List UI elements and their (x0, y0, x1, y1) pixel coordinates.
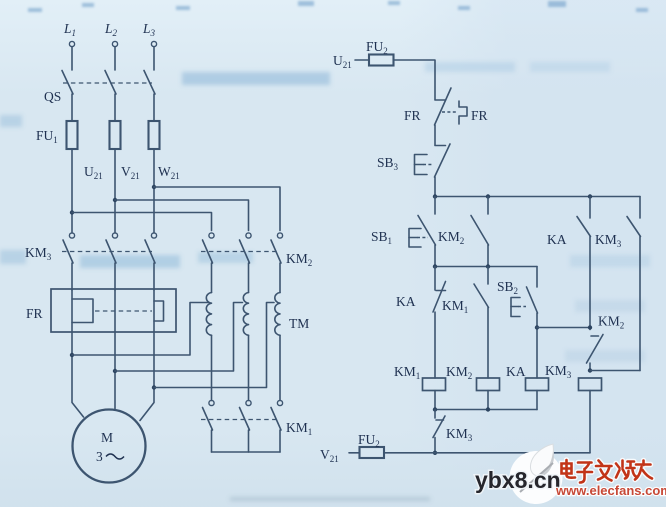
fuse FU1 element 1 (67, 121, 78, 149)
KM1 pole1 terminal (209, 400, 214, 405)
control bottom bus (384, 452, 590, 454)
wire FU1 to KM3 pole2 (node V21) (114, 149, 116, 233)
junction bus-KM2aux (486, 194, 490, 198)
node W21 label (158, 164, 180, 181)
wire KM3 pole2 to FR (114, 263, 116, 290)
control top bus (435, 196, 640, 198)
wire L1 to QS (71, 47, 73, 70)
pushbutton SB2 (NO) (511, 267, 538, 379)
KM2 aux label (438, 229, 464, 246)
svg-text:3: 3 (96, 449, 103, 464)
junction KM3 coil top (588, 368, 592, 372)
wire V21 phase to KM2 pole2 (115, 200, 249, 231)
autotransformer TM label (289, 316, 309, 331)
KM2 pole1 terminal (209, 233, 214, 238)
junction SB2 bottom (535, 325, 539, 329)
node L1 label (63, 21, 76, 38)
motor M (73, 410, 146, 483)
FR contact label (left) (404, 108, 421, 123)
coil KM1 label (394, 364, 420, 381)
contactor KM2 aux NO contact (471, 197, 489, 267)
KM3 pole1 blade (63, 240, 73, 263)
KM1 pole2 blade (240, 408, 250, 431)
KM2 pole2 terminal (246, 233, 251, 238)
contactor KM3 NC interlock (bottom) (433, 410, 445, 453)
KA row2 label (396, 294, 416, 309)
wire L3 to QS (153, 47, 155, 70)
SB1 label (371, 229, 392, 246)
wire U21 to FU2 (355, 59, 369, 61)
contactor KM3 aux NO contact (row1) (627, 197, 641, 371)
wire KM2 pole1 to TM coil1 (211, 263, 213, 293)
fuse FU2 (top) (369, 55, 394, 66)
wire KM3 coil to bottom bus (589, 391, 591, 453)
svg-text:www.elecfans.com: www.elecfans.com (555, 483, 666, 498)
switch QS pole 1 (62, 71, 73, 95)
star point bus (212, 451, 281, 453)
junction return-col2 (486, 407, 490, 411)
KM1 pole2 terminal (246, 400, 251, 405)
wire FR pole1 down to motor (72, 332, 84, 417)
wire KA coil to return bar (536, 391, 538, 410)
wire TM tap3 to phase3 (154, 303, 274, 388)
contactor KM2 NC interlock contact (587, 335, 604, 371)
KA row1 label (547, 232, 567, 247)
junction phase3 tap (152, 385, 156, 389)
coil KM2 label (446, 364, 472, 381)
wire TM coil1 to KM1 (211, 335, 213, 400)
node U21 label (84, 164, 103, 181)
wire L2 to QS (114, 47, 116, 70)
KM3 NC label (446, 426, 473, 443)
wire KM3 pole1 to FR (71, 263, 73, 290)
svg-text:FR: FR (26, 306, 43, 321)
node U21 (control) label (333, 53, 352, 70)
thermal relay FR label (26, 306, 43, 321)
KM2 pole2 blade (240, 240, 250, 263)
relay KA NC contact (row2) (433, 267, 446, 379)
wire FU1 to KM3 pole1 (node U21) (71, 149, 73, 233)
terminal L1 (69, 41, 74, 46)
watermark chinese logo text (drawn strokes) (562, 460, 653, 483)
wire U21 phase to KM2 pole1 (72, 213, 212, 231)
terminal L2 (112, 41, 117, 46)
wire QS to FU1 pole1 (71, 94, 73, 121)
row1 junction bar (435, 266, 537, 268)
wire FU2 to FR contact (394, 60, 436, 100)
fuse FU2 (top) label (366, 39, 388, 56)
terminal L3 (151, 41, 156, 46)
pushbutton SB1 (NO start) (409, 197, 436, 267)
coil return bar (435, 409, 537, 411)
node V21 label (121, 164, 140, 181)
node V21 (control) label (320, 447, 339, 464)
SB2 label (497, 279, 518, 296)
contactor KM1 aux NO contact (row2) (474, 267, 489, 379)
KM3 pole2 terminal (112, 233, 117, 238)
KM3 pole3 blade (145, 240, 155, 263)
thermal relay FR heater block (51, 289, 176, 332)
KM3 pole2 blade (106, 240, 116, 263)
KM2 pole3 terminal (277, 233, 282, 238)
autotransformer TM coil 1 (206, 293, 211, 336)
FR heater label (right) (471, 108, 488, 123)
coil KM3 (579, 378, 602, 391)
wire KM2 pole2 to TM coil2 (248, 263, 250, 293)
wire TM tap1 to phase1 (72, 303, 208, 356)
node L3 label (142, 21, 156, 38)
coil KA (526, 378, 549, 391)
KM1 pole3 terminal (277, 400, 282, 405)
junction bottom bus (433, 451, 437, 455)
svg-text:QS: QS (44, 89, 61, 104)
wire TM coil2 to KM1 (248, 335, 250, 400)
wire KM1 coil to return bar (434, 391, 436, 410)
coil KA label (506, 364, 526, 379)
junction KM2nc top (588, 325, 592, 329)
fuse FU1 label (36, 128, 58, 145)
wire KM3aux to KM3 coil node (590, 370, 640, 372)
KM1 linkage (dashed) (201, 419, 278, 421)
KM1 pole3 blade (271, 408, 281, 431)
svg-text:ybx8.cn: ybx8.cn (475, 467, 561, 493)
watermark elecfans url (555, 483, 666, 498)
KM3 pole3 terminal (151, 233, 156, 238)
SB3 label (377, 155, 399, 172)
KM1 pole1 blade (203, 408, 213, 431)
junction row1-col1 (433, 264, 437, 268)
wire SB3 to bus (434, 177, 436, 197)
wire FR pole2 down to motor (114, 332, 116, 410)
KM2 label (right bank) (286, 251, 312, 268)
wire TM tap2 to phase2 (115, 303, 243, 372)
switch QS label (44, 89, 61, 104)
autotransformer TM coil 2 (243, 293, 248, 336)
pushbutton SB3 (NC stop) (415, 144, 451, 177)
junction on U21 phase (70, 210, 74, 214)
watermark ybx8.cn text (475, 467, 561, 493)
switch QS pole 2 (105, 71, 116, 95)
wire FR pole3 down to motor (140, 332, 154, 421)
fuse FU2 (bottom) (360, 447, 385, 458)
KM2 NC label (598, 314, 624, 331)
watermark feather badge (510, 444, 563, 504)
wire W21 phase to KM2 pole3 (154, 187, 280, 231)
KM2 pole3 blade (271, 240, 281, 263)
wire QS to FU1 pole2 (114, 94, 116, 121)
coil KM3 label (545, 363, 572, 380)
wire KM2 pole3 to TM coil3 (279, 263, 281, 293)
junction on V21 phase (113, 198, 117, 202)
thermal relay FR NC contact (435, 88, 468, 125)
wire KM1 poles to star bus (212, 430, 281, 452)
switch QS linkage (dashed) (63, 82, 152, 84)
coil KM2 (477, 378, 500, 391)
wire FU1 to KM3 pole3 (node W21) (153, 149, 155, 233)
wire KM3 pole3 to FR (153, 263, 155, 290)
wire FR to SB3 (434, 125, 436, 145)
KM1 aux label (442, 298, 468, 315)
svg-text:M: M (101, 430, 113, 445)
switch QS pole 3 (144, 71, 155, 95)
node L2 label (104, 21, 118, 38)
svg-text:FR: FR (404, 108, 421, 123)
KM3 aux label (595, 232, 622, 249)
junction bus-SB1 (433, 194, 437, 198)
fuse FU2 (bottom) label (358, 432, 380, 449)
wire V21 to FU2 bottom (349, 452, 360, 454)
svg-text:TM: TM (289, 316, 309, 331)
junction on W21 phase (152, 185, 156, 189)
svg-text:FR: FR (471, 108, 488, 123)
junction phase2 tap (113, 369, 117, 373)
wire KM2 coil to return bar (487, 391, 489, 410)
wire SB2 to KM2nc node (537, 327, 590, 329)
svg-text:KA: KA (547, 232, 567, 247)
wire QS to FU1 pole3 (153, 94, 155, 121)
junction bus-KA (588, 194, 592, 198)
svg-text:KA: KA (506, 364, 526, 379)
junction row1-col2 (486, 264, 490, 268)
autotransformer TM coil 3 (275, 293, 280, 336)
coil KM1 (423, 378, 446, 391)
KM3 linkage (dashed) (62, 251, 152, 253)
KM3 label (left bank) (25, 245, 52, 262)
KM2 pole1 blade (203, 240, 213, 263)
wire TM coil3 to KM1 (279, 335, 281, 400)
junction return-col1 (433, 407, 437, 411)
fuse FU1 element 2 (110, 121, 121, 149)
KM1 label (bottom bank) (286, 420, 312, 437)
junction phase1 tap (70, 353, 74, 357)
svg-text:KA: KA (396, 294, 416, 309)
relay KA NO contact (row1) (577, 197, 591, 330)
fuse FU1 element 3 (149, 121, 160, 149)
KM2 linkage (dashed) (201, 251, 278, 253)
KM3 pole1 terminal (69, 233, 74, 238)
